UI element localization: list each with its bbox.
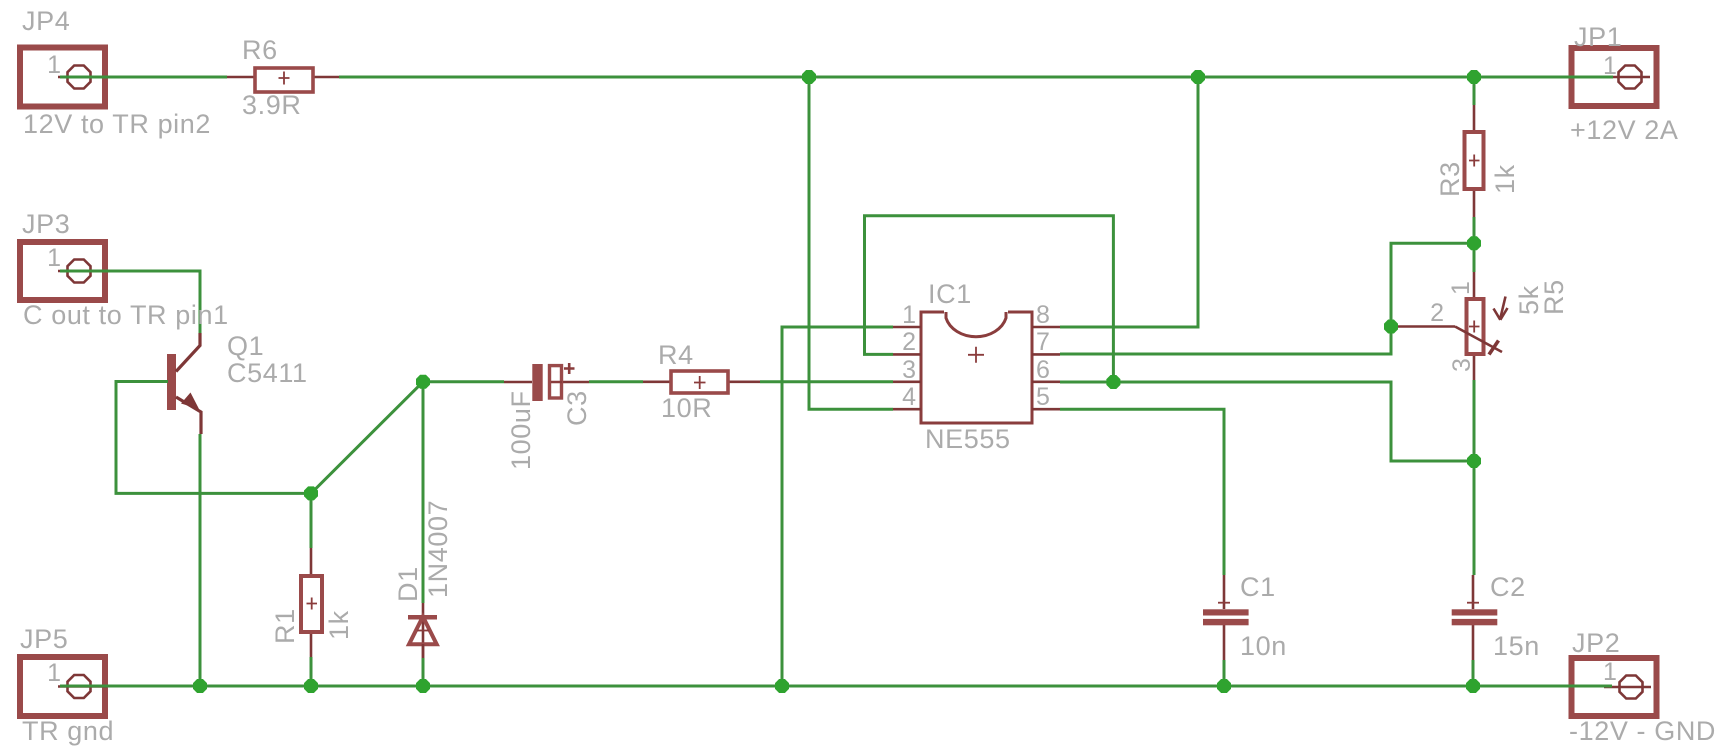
- resistor R1: [301, 548, 322, 657]
- connector JP2: [1572, 658, 1657, 716]
- svg-text:10n: 10n: [1240, 631, 1287, 661]
- svg-text:R4: R4: [658, 340, 694, 370]
- op-amp U1 IC1 NE555 body: [921, 312, 1032, 423]
- svg-text:NE555: NE555: [925, 424, 1011, 454]
- resistor R4: [643, 371, 760, 393]
- svg-text:R5: R5: [1539, 279, 1569, 315]
- svg-text:TR gnd: TR gnd: [22, 716, 114, 746]
- wire R3 bottom to node: [1473, 217, 1476, 243]
- svg-text:8: 8: [1036, 301, 1050, 329]
- junction node Q1 base / R1 / diagonal: [304, 486, 318, 500]
- wire IC1 pin 5 to C1: [1060, 409, 1224, 575]
- capacitor C1: [1203, 575, 1249, 660]
- svg-text:3: 3: [902, 356, 916, 384]
- svg-text:C3: C3: [562, 390, 592, 426]
- svg-text:JP1: JP1: [1574, 22, 1622, 52]
- svg-text:D1: D1: [393, 566, 423, 602]
- IC1 pin 7 stub: [1032, 353, 1060, 356]
- wire IC1 pin 6 to R5 pin 3 net: [1060, 382, 1474, 461]
- wire C1 bottom to ground rail: [1223, 660, 1226, 686]
- junction ground rail at Q1 emitter: [193, 679, 207, 693]
- wire bottom ground rail: [60, 685, 1612, 688]
- capacitor C3: [504, 363, 589, 401]
- wire D1 bottom to ground rail: [422, 658, 425, 686]
- wire +12V rail to R3 top: [1473, 77, 1476, 105]
- junction ground rail at C2: [1466, 679, 1480, 693]
- connector JP3: [20, 242, 107, 300]
- svg-text:100uF: 100uF: [506, 390, 536, 470]
- wire R1 bottom to ground rail: [310, 657, 313, 686]
- svg-text:1k: 1k: [1490, 164, 1520, 194]
- svg-text:+12V 2A: +12V 2A: [1570, 115, 1679, 145]
- junction R3 bottom node: [1467, 236, 1481, 250]
- svg-text:1: 1: [47, 659, 61, 687]
- IC1 pin 6 stub: [1032, 380, 1060, 383]
- svg-text:1: 1: [1603, 52, 1617, 80]
- svg-text:3.9R: 3.9R: [242, 90, 301, 120]
- svg-text:C1: C1: [1240, 572, 1276, 602]
- svg-text:6: 6: [1036, 356, 1050, 384]
- junction top rail at pin4 riser: [802, 70, 816, 84]
- wire C2 bottom to ground rail: [1472, 660, 1475, 686]
- resistor R3: [1465, 105, 1484, 217]
- wire Q1 base loop: [116, 382, 311, 494]
- junction pin6 wire at loop: [1106, 375, 1120, 389]
- svg-text:JP2: JP2: [1572, 628, 1620, 658]
- junction ground rail at D1: [416, 679, 430, 693]
- svg-text:4: 4: [902, 383, 916, 411]
- svg-text:C out to TR pin1: C out to TR pin1: [23, 300, 229, 330]
- svg-text:IC1: IC1: [928, 279, 972, 309]
- svg-text:Q1: Q1: [227, 331, 264, 361]
- capacitor C2: [1452, 575, 1498, 660]
- wire top rail R6 to JP1: [339, 76, 1613, 79]
- connector JP4: [20, 48, 107, 107]
- svg-text:5: 5: [1036, 383, 1050, 411]
- junction top rail at pin8 riser: [1191, 70, 1205, 84]
- svg-text:1: 1: [902, 301, 916, 329]
- svg-text:1N4007: 1N4007: [423, 500, 453, 598]
- IC1 pin 2 stub: [893, 353, 921, 356]
- wire IC1 pin 7 to R5 wiper net: [1060, 243, 1474, 354]
- svg-text:-12V - GND: -12V - GND: [1569, 716, 1716, 746]
- junction R5 wiper node: [1384, 320, 1398, 334]
- wire IC1 pin 4 to +12V rail: [809, 77, 893, 409]
- svg-text:1: 1: [47, 51, 61, 79]
- svg-text:JP5: JP5: [20, 624, 68, 654]
- connector JP5: [20, 657, 107, 716]
- svg-text:2: 2: [902, 328, 916, 356]
- wire R4 to IC1 pin 3: [760, 380, 893, 383]
- svg-text:1: 1: [1447, 281, 1475, 295]
- svg-text:10R: 10R: [661, 393, 712, 423]
- wire C3 to R4: [589, 380, 643, 383]
- svg-text:1: 1: [1603, 658, 1617, 686]
- svg-text:1k: 1k: [324, 610, 354, 640]
- wire node to R1 top: [310, 493, 313, 548]
- svg-text:R1: R1: [270, 608, 300, 644]
- svg-text:R3: R3: [1435, 161, 1465, 197]
- svg-text:C5411: C5411: [227, 358, 308, 388]
- wire IC1 pin 8 to +12V rail: [1060, 77, 1198, 327]
- junction R5 pin3 node: [1467, 454, 1481, 468]
- wire node to R5 pin 1: [1473, 243, 1476, 272]
- IC1 pin 8 stub: [1032, 326, 1060, 329]
- svg-text:1: 1: [47, 244, 61, 272]
- resistor R6: [227, 68, 339, 92]
- wire R5 pin 3 to C2: [1473, 380, 1476, 575]
- wire node to D1 top: [422, 382, 425, 603]
- IC1 pin 1 stub: [893, 326, 921, 329]
- svg-text:12V to TR pin2: 12V to TR pin2: [23, 109, 211, 139]
- trimmer R5: [1391, 272, 1508, 380]
- svg-text:R6: R6: [242, 35, 278, 65]
- wire IC1 pin 2 loop over IC to pin 6: [865, 216, 1114, 382]
- wire IC1 pin 1 to ground: [782, 327, 893, 686]
- connector JP1: [1572, 48, 1657, 106]
- diode D1: [408, 603, 437, 658]
- wire JP3 to Q1 collector: [60, 271, 200, 333]
- svg-text:7: 7: [1036, 328, 1050, 356]
- transistor Q1: [167, 333, 201, 434]
- svg-text:15n: 15n: [1493, 631, 1540, 661]
- svg-text:JP3: JP3: [22, 209, 70, 239]
- svg-text:JP4: JP4: [22, 6, 70, 36]
- IC1 pin 3 stub: [893, 380, 921, 383]
- svg-text:3: 3: [1448, 358, 1476, 372]
- junction ground rail at pin1 riser: [775, 679, 789, 693]
- junction mid row at D1: [416, 375, 430, 389]
- wire mid row node to C3: [423, 380, 504, 383]
- svg-text:C2: C2: [1490, 572, 1526, 602]
- IC1 pin 4 stub: [893, 408, 921, 411]
- svg-text:2: 2: [1430, 299, 1444, 327]
- IC1 pin 5 stub: [1032, 408, 1060, 411]
- wire top rail JP4 to R6: [60, 76, 227, 79]
- junction top rail at R3: [1467, 70, 1481, 84]
- wire diagonal node to mid row: [311, 382, 423, 494]
- wire Q1 emitter to ground rail: [199, 434, 202, 686]
- junction ground rail at C1: [1217, 679, 1231, 693]
- junction ground rail at R1: [304, 679, 318, 693]
